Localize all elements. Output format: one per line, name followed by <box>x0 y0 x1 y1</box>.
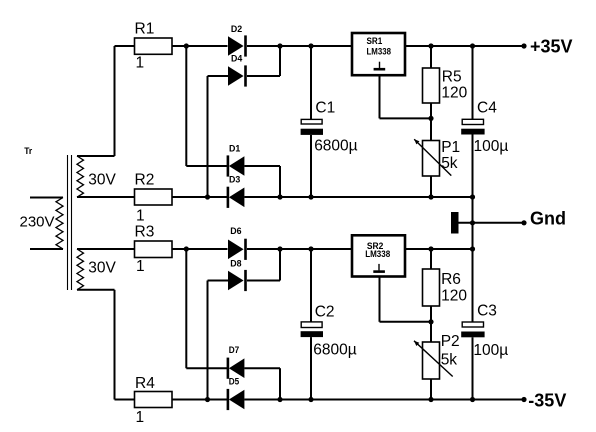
svg-text:30V: 30V <box>88 260 116 277</box>
svg-text:D7: D7 <box>229 345 240 356</box>
svg-text:5k: 5k <box>441 352 458 369</box>
svg-text:120: 120 <box>441 288 467 305</box>
svg-text:R6: R6 <box>441 271 461 288</box>
svg-text:6800µ: 6800µ <box>313 342 356 359</box>
svg-text:Tr: Tr <box>24 146 32 157</box>
svg-text:R3: R3 <box>135 224 155 241</box>
svg-text:230V: 230V <box>20 213 55 230</box>
svg-text:+35V: +35V <box>530 37 573 57</box>
svg-text:C3: C3 <box>477 302 497 319</box>
svg-text:1: 1 <box>136 258 145 275</box>
svg-text:30V: 30V <box>88 172 116 189</box>
svg-text:D4: D4 <box>231 54 243 65</box>
svg-text:D6: D6 <box>230 226 241 237</box>
svg-text:100µ: 100µ <box>474 138 509 155</box>
svg-text:Gnd: Gnd <box>530 209 566 229</box>
svg-text:D2: D2 <box>231 24 242 35</box>
svg-text:-35V: -35V <box>528 391 566 411</box>
svg-text:D1: D1 <box>229 144 241 155</box>
svg-text:D8: D8 <box>230 259 241 270</box>
svg-text:R4: R4 <box>135 375 155 392</box>
svg-text:1: 1 <box>136 409 145 426</box>
svg-text:5k: 5k <box>441 155 458 172</box>
svg-text:D3: D3 <box>229 175 240 186</box>
svg-text:R5: R5 <box>442 68 462 85</box>
svg-text:D5: D5 <box>229 376 240 387</box>
svg-text:100µ: 100µ <box>473 342 508 359</box>
svg-text:6800µ: 6800µ <box>314 138 357 155</box>
svg-text:1: 1 <box>136 54 145 71</box>
svg-text:C2: C2 <box>315 303 335 320</box>
svg-text:LM338: LM338 <box>365 249 390 260</box>
svg-text:1: 1 <box>136 207 145 224</box>
svg-text:120: 120 <box>441 85 467 102</box>
svg-text:C4: C4 <box>477 99 497 116</box>
svg-text:C1: C1 <box>315 99 335 116</box>
svg-text:LM338: LM338 <box>367 46 392 57</box>
svg-text:P2: P2 <box>441 333 460 350</box>
svg-text:R2: R2 <box>135 172 155 189</box>
svg-text:SR1: SR1 <box>367 36 383 47</box>
svg-text:P1: P1 <box>441 139 460 156</box>
svg-text:R1: R1 <box>135 21 155 38</box>
